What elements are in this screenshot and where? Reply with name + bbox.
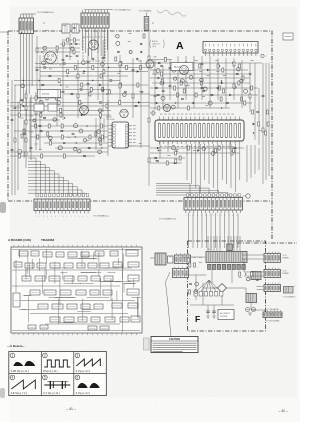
- value label: [139, 90, 142, 92]
- resistor: [126, 66, 128, 70]
- capacitor: [175, 150, 178, 151]
- resistor: [179, 156, 181, 160]
- capacitor: [41, 84, 44, 85]
- value label: [154, 56, 157, 58]
- function block B18: [113, 262, 122, 267]
- capacitor: [66, 55, 69, 56]
- resistor: [251, 272, 253, 276]
- wire: [44, 142, 108, 144]
- resistor: [47, 132, 49, 136]
- caution box: [151, 337, 198, 353]
- wire: [150, 147, 244, 149]
- capacitor: [256, 111, 259, 112]
- capacitor: [72, 133, 75, 134]
- resistor: [108, 90, 110, 94]
- resistor: [177, 93, 179, 97]
- connector CN807: [175, 253, 191, 264]
- svg-text:TO X BOARD H-1: TO X BOARD H-1: [37, 11, 55, 14]
- junction: [64, 117, 65, 118]
- wire: [102, 40, 104, 112]
- function block B21: [35, 276, 45, 281]
- svg-text:TDA8362: TDA8362: [41, 238, 55, 242]
- svg-text:5: 5: [86, 216, 87, 218]
- diode: [137, 58, 139, 60]
- transistor: [195, 282, 199, 286]
- function block B4: [56, 252, 64, 257]
- capacitor: [109, 80, 112, 81]
- resistor: [100, 141, 102, 145]
- junction: [219, 65, 220, 66]
- resistor: [193, 263, 195, 267]
- value label: [138, 60, 141, 62]
- note text block: [150, 40, 165, 49]
- wire: [112, 145, 150, 147]
- component box top right: [283, 33, 293, 40]
- junction: [250, 94, 251, 95]
- function block B32: [90, 290, 99, 295]
- wire: [233, 58, 235, 100]
- junction: [100, 117, 101, 118]
- value label: [35, 127, 38, 129]
- block diagram bus wires: [12, 248, 141, 332]
- wire: [55, 147, 108, 149]
- svg-text:1: 1: [71, 216, 72, 218]
- diode: [156, 102, 158, 104]
- wire: [77, 60, 79, 118]
- wire: [150, 107, 230, 109]
- resistor: [244, 101, 246, 105]
- function block B36: [38, 304, 48, 309]
- transistor: [200, 78, 204, 82]
- resistor: [35, 110, 37, 114]
- capacitor: [102, 89, 105, 90]
- svg-text:7: 7: [59, 216, 60, 218]
- wire: [150, 69, 248, 71]
- block diagram top pins: [14, 245, 137, 247]
- junction: [41, 51, 42, 52]
- wire: [60, 43, 80, 45]
- waveform cell marker 2: [43, 353, 48, 358]
- resistor: [231, 151, 233, 155]
- junction: [60, 84, 61, 85]
- capacitor: [156, 160, 159, 161]
- value label: [69, 55, 72, 57]
- svg-text:(1/2): (1/2): [152, 46, 156, 48]
- resistor: [175, 151, 177, 155]
- function block B34: [127, 289, 139, 295]
- function block B11: [25, 263, 34, 268]
- capacitor: [132, 69, 135, 70]
- svg-text:2: 2: [44, 354, 46, 358]
- resistor: [267, 110, 269, 114]
- resistor: [90, 88, 92, 92]
- module MD701 outline: [83, 37, 105, 61]
- value label: [239, 276, 242, 278]
- svg-text:4: 4: [47, 216, 48, 218]
- transistor: [58, 146, 62, 150]
- waveform 2 (square wave): [44, 360, 70, 367]
- connector CN802: [173, 267, 189, 278]
- function block B7: [95, 251, 104, 256]
- wire: [150, 112, 156, 114]
- component row above CN705: [36, 194, 89, 197]
- svg-text:1.05 Vp-p ( H ): 1.05 Vp-p ( H ): [11, 369, 29, 373]
- diode: [207, 69, 209, 71]
- wire: [28, 119, 60, 121]
- value label: [35, 143, 38, 145]
- power wiring: [150, 255, 267, 315]
- wire: [152, 73, 248, 75]
- function block B3: [43, 252, 52, 257]
- wire: [150, 152, 240, 154]
- wire: [265, 63, 267, 180]
- waveform 1 (burst): [13, 361, 35, 366]
- wire drops into power section: [208, 236, 240, 252]
- resistor: [40, 109, 42, 113]
- value label: [117, 72, 120, 74]
- value label: [199, 261, 202, 263]
- transistor: [21, 84, 25, 88]
- schematic frame border (dash-dot): [8, 31, 297, 243]
- junction: [56, 51, 57, 52]
- function block B41: [112, 303, 122, 308]
- function block B6: [81, 252, 89, 257]
- resistor: [120, 83, 122, 87]
- junction: [253, 132, 254, 133]
- wire bundle IC701 to CN706: [187, 144, 240, 192]
- junction: [50, 139, 51, 140]
- transformer T801: [206, 252, 247, 263]
- wire: [258, 148, 260, 170]
- caution pointer line: [166, 272, 172, 337]
- transistor: [208, 101, 212, 105]
- wire bus to CN702 label: [84, 9, 113, 11]
- diode: [141, 51, 143, 53]
- pin labels CN706: [186, 215, 238, 217]
- resistor: [35, 124, 37, 128]
- svg-text:8: 8: [63, 216, 64, 218]
- transistor: [156, 69, 160, 73]
- wire: [36, 51, 80, 53]
- transistor: [129, 50, 132, 53]
- resistor: [174, 86, 176, 90]
- pin value labels IC701: [160, 114, 234, 147]
- svg-text:CAUTION: CAUTION: [169, 338, 180, 341]
- resistor: [251, 86, 253, 90]
- wire: [254, 63, 256, 140]
- value label: [82, 114, 85, 116]
- svg-text:TO X BOARD (+): TO X BOARD (+): [93, 215, 109, 218]
- transistor Q704 (metal can): [80, 106, 89, 115]
- capacitor: [236, 73, 239, 74]
- wire: [35, 67, 150, 69]
- transistor: [99, 109, 102, 112]
- svg-text:4: 4: [82, 216, 83, 218]
- resistor: [119, 62, 121, 66]
- resistor: [58, 101, 60, 105]
- function block B31: [76, 290, 86, 295]
- function block B43: [50, 317, 60, 322]
- capacitor: [43, 67, 46, 68]
- capacitor: [71, 93, 74, 94]
- transistor: [123, 93, 127, 97]
- transistor: [194, 290, 198, 294]
- junction: [108, 67, 109, 68]
- capacitor: [217, 87, 220, 88]
- function block B30: [60, 290, 71, 295]
- function block B45: [78, 317, 87, 322]
- capacitor: [87, 83, 90, 84]
- wire: [262, 63, 264, 184]
- resistor: [67, 70, 69, 74]
- transistor: [160, 81, 164, 85]
- connector CN803: [264, 252, 281, 263]
- wire: [56, 98, 58, 126]
- wire: [150, 157, 185, 159]
- resistor: [103, 70, 105, 74]
- junction: [175, 102, 176, 103]
- wire fan-out to CN705: [28, 158, 87, 196]
- resistor: [60, 113, 62, 117]
- svg-text:2: 2: [75, 216, 76, 218]
- transistor: [171, 105, 175, 109]
- junction: [21, 32, 22, 33]
- value label: [199, 256, 202, 258]
- svg-text:2 Vp-p ( H ): 2 Vp-p ( H ): [76, 391, 91, 395]
- capacitor: [62, 59, 65, 60]
- resistor: [25, 94, 27, 98]
- capacitor: [169, 85, 172, 86]
- function block B2: [31, 251, 39, 256]
- transistor: [237, 68, 240, 71]
- capacitor: [155, 87, 158, 88]
- value label: [67, 136, 70, 138]
- component box DL701: [171, 63, 193, 71]
- function block B29: [44, 290, 56, 295]
- capacitor: [202, 90, 205, 91]
- resistor: [100, 74, 102, 78]
- resistor: [267, 122, 269, 126]
- svg-text:TO X BOARD 2: TO X BOARD 2: [283, 296, 296, 299]
- resistor: [99, 113, 101, 117]
- wire: [10, 155, 95, 157]
- resistor: [56, 46, 58, 50]
- resistor: [115, 57, 117, 61]
- svg-text:9: 9: [67, 216, 68, 218]
- component row above CN706: [187, 194, 241, 197]
- transistor: [79, 129, 83, 133]
- wire: [159, 142, 161, 158]
- resistor: [239, 64, 241, 68]
- transistor: [240, 79, 243, 82]
- svg-text:TA7343AP: TA7343AP: [106, 118, 116, 121]
- wire: [30, 97, 62, 99]
- bridge rectifier D802: [218, 284, 227, 293]
- resistor: [60, 109, 62, 113]
- svg-text:3: 3: [193, 215, 194, 217]
- svg-text:—A Board—: —A Board—: [7, 344, 25, 348]
- resistor: [161, 72, 163, 76]
- function block B42: [128, 303, 138, 308]
- connector CN806: [263, 310, 282, 318]
- function block B40: [94, 304, 103, 309]
- junction ring A: [246, 194, 250, 198]
- resistor: [81, 83, 83, 87]
- transistor: [39, 100, 43, 104]
- resistor: [101, 135, 103, 139]
- value label: [30, 101, 33, 103]
- resistor: [89, 135, 91, 139]
- resistor: [164, 58, 166, 62]
- IC IC701: [155, 117, 244, 145]
- function block B13: [50, 263, 60, 268]
- wire harness from CN701: [21, 34, 33, 121]
- function block B5: [68, 252, 77, 257]
- capacitor C803 (circled): [246, 308, 250, 312]
- resistor: [166, 161, 168, 165]
- svg-text:FILTER: FILTER: [220, 316, 228, 318]
- capacitor: [36, 69, 39, 70]
- resistor: [262, 128, 264, 132]
- wire: [87, 48, 89, 110]
- capacitor: [162, 90, 165, 91]
- value label: [167, 154, 170, 156]
- waveform cell marker 5: [43, 375, 48, 380]
- capacitor C804 (circled): [252, 308, 256, 312]
- function block B9: [126, 250, 138, 256]
- component box S801: [168, 256, 174, 263]
- block diagram interconnect wires: [19, 249, 141, 324]
- wire: [14, 85, 16, 195]
- power section frame (dash-dot): [188, 241, 266, 331]
- svg-text:TO X BOARD: TO X BOARD: [139, 10, 152, 13]
- resistor: [39, 102, 41, 106]
- junction: [158, 150, 159, 151]
- resistor: [21, 134, 23, 138]
- resistor: [56, 96, 58, 100]
- wire: [95, 118, 97, 150]
- capacitor: [160, 65, 163, 66]
- wire: [23, 120, 25, 158]
- transistor: [43, 46, 47, 50]
- capacitor: [76, 55, 79, 56]
- capacitor: [14, 107, 17, 108]
- capacitor: [11, 149, 14, 150]
- value label: [159, 149, 162, 151]
- function block B33: [103, 290, 112, 295]
- resistor: [233, 84, 235, 88]
- resistor: [175, 159, 177, 163]
- value label: [58, 148, 61, 150]
- svg-text:AUDIO: AUDIO: [152, 40, 159, 43]
- svg-text:7: 7: [209, 215, 210, 217]
- transistor Q705 (metal can): [146, 60, 154, 68]
- resistor: [20, 101, 22, 105]
- resistor: [222, 89, 224, 93]
- svg-text:8 Vp-p ( H ): 8 Vp-p ( H ): [43, 369, 58, 373]
- svg-text:TO X BOARD H-3: TO X BOARD H-3: [159, 218, 177, 221]
- transistor: [211, 152, 215, 156]
- value label: [86, 139, 89, 141]
- wire: [162, 66, 164, 108]
- resistor: [220, 97, 222, 101]
- resistor: [77, 74, 79, 78]
- resistor: [102, 88, 104, 92]
- pin labels CN702: [82, 34, 108, 36]
- transistor: [101, 62, 105, 66]
- margin line: [0, 31, 8, 33]
- connector CN804: [264, 268, 281, 278]
- transformer T703: [72, 24, 79, 33]
- function block B16: [88, 263, 97, 268]
- function block B37: [52, 304, 63, 309]
- value label: [216, 70, 219, 72]
- capacitor: [73, 27, 76, 28]
- value label: [191, 66, 194, 68]
- resistor: [63, 154, 65, 158]
- transistor: [71, 47, 74, 50]
- function block B23: [64, 276, 74, 281]
- fuse block F801: [227, 244, 233, 251]
- transistor: [74, 147, 77, 150]
- resistor: [41, 154, 43, 158]
- capacitor: [80, 89, 83, 90]
- svg-text:8: 8: [213, 215, 214, 217]
- value label: [207, 74, 210, 76]
- connector CN805: [264, 283, 281, 292]
- wire: [10, 114, 111, 116]
- connector CN704: [203, 42, 258, 57]
- diode: [221, 82, 223, 84]
- value label: [195, 59, 198, 61]
- resistor: [35, 96, 37, 100]
- resistor: [241, 97, 243, 101]
- diode: [193, 102, 195, 104]
- diode: [157, 147, 159, 149]
- svg-text:– 41 –: – 41 –: [66, 407, 76, 411]
- resistor: [185, 82, 187, 86]
- capacitor: [157, 94, 160, 95]
- function block B25: [91, 276, 100, 281]
- resistor: [238, 81, 240, 85]
- capacitor: [262, 95, 265, 96]
- terminal row below T801: [194, 292, 223, 297]
- wire: [268, 63, 270, 176]
- svg-text:BOARD: BOARD: [283, 272, 290, 275]
- value label: [17, 107, 20, 109]
- transistor Q706 (metal can): [180, 66, 189, 75]
- function block B14: [64, 263, 73, 268]
- waveform 4 (ramp): [11, 380, 35, 389]
- svg-text:AC INPUT: AC INPUT: [220, 312, 231, 315]
- value label: [30, 115, 33, 117]
- junction: [86, 125, 87, 126]
- transistor: [82, 61, 86, 65]
- capacitor: [62, 91, 65, 92]
- wire: [148, 30, 150, 186]
- wire: [225, 58, 227, 108]
- wire: [62, 39, 80, 41]
- wire: [250, 145, 252, 178]
- transistor: [33, 119, 36, 122]
- transistor: [233, 86, 236, 89]
- resistor: [89, 92, 91, 96]
- capacitor: [249, 73, 252, 74]
- transistor: [189, 75, 193, 79]
- svg-text:2: 2: [39, 216, 40, 218]
- wire: [36, 36, 38, 90]
- transistor: [174, 77, 177, 80]
